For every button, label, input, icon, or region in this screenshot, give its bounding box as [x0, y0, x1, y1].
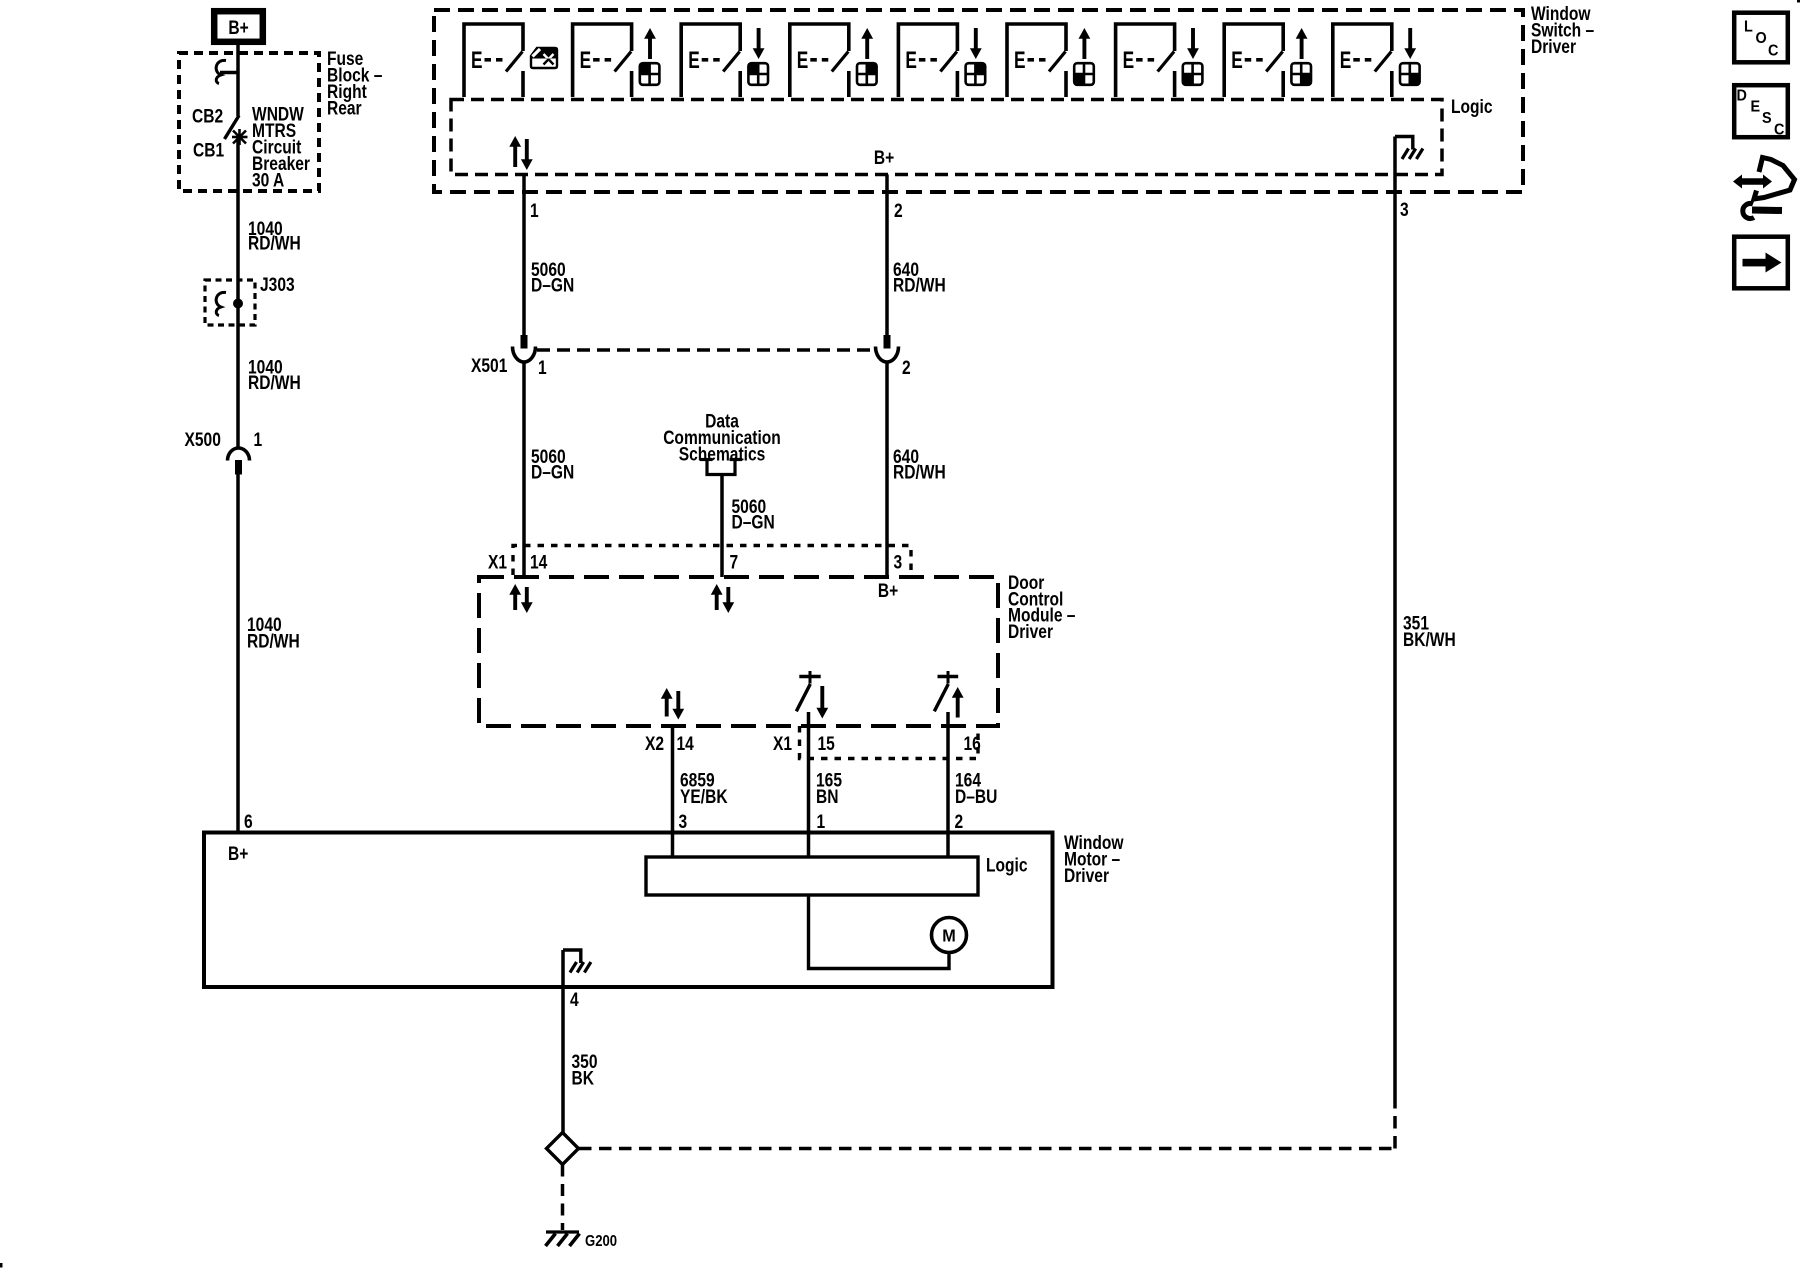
motor pin 2 label [955, 811, 964, 833]
motor logic box [646, 857, 978, 895]
wire 640 RD/WH: switch pin 2 to X501 [885, 175, 889, 336]
window switch - driver label [1531, 3, 1594, 58]
DCM up/down arrows (X2 pin 14) [661, 688, 684, 720]
svg-text:3: 3 [679, 811, 688, 833]
svg-text:2: 2 [894, 200, 903, 222]
fuse block label [327, 48, 383, 119]
svg-text:X2: X2 [645, 733, 664, 755]
DCM output switch (pin 16) with up arrow [934, 671, 963, 718]
motor pin 1 label [817, 811, 826, 833]
dashed wire: splice to G200 [561, 1165, 565, 1231]
door control module label [1008, 572, 1076, 643]
svg-text:E: E [688, 47, 700, 73]
motor pin 4 label [570, 989, 579, 1011]
svg-text:BK/WH: BK/WH [1403, 629, 1456, 651]
circuit breaker CB1 thermal hook [216, 60, 238, 83]
connector X1 label (top) [488, 551, 507, 573]
wire label 1040 RD/WH (middle) [248, 356, 301, 393]
LOC reference box [1734, 13, 1788, 63]
svg-text:15: 15 [818, 733, 836, 755]
svg-text:7: 7 [730, 551, 739, 573]
svg-text:RD/WH: RD/WH [893, 274, 946, 296]
svg-text:B+: B+ [228, 17, 248, 39]
svg-text:D: D [1737, 87, 1747, 105]
svg-text:E: E [1014, 47, 1026, 73]
svg-text:4: 4 [570, 989, 579, 1011]
window switch unit 8 (E--/ switch + BR quad icon) [1224, 24, 1311, 97]
svg-text:30 A: 30 A [252, 169, 285, 191]
svg-text:YE/BK: YE/BK [680, 786, 728, 808]
wire label 1040 RD/WH (upper) [248, 218, 301, 254]
wire 165 BN: DCM pin 15 to motor pin 1 [807, 712, 811, 833]
ground G200 symbol [546, 1232, 580, 1246]
svg-text:1: 1 [254, 429, 263, 451]
pin 2 label (switch) [894, 200, 903, 222]
window switch unit 7 (E--/ switch + BL quad icon) [1116, 24, 1203, 97]
door control module - driver dashed box [479, 577, 998, 726]
DCM up/down arrows (pin 7) [711, 584, 734, 613]
window switch unit 5 (E--/ switch + TR quad icon) [898, 24, 985, 97]
svg-text:L: L [1744, 18, 1753, 36]
svg-text:C: C [1768, 42, 1778, 60]
svg-text:X1: X1 [488, 551, 507, 573]
circuit breaker CB1 contact star [232, 129, 248, 145]
svg-text:Driver: Driver [1531, 36, 1576, 58]
svg-text:Rear: Rear [327, 97, 362, 119]
svg-text:B+: B+ [874, 147, 894, 169]
svg-text:X501: X501 [471, 355, 508, 377]
wire label 640 RD/WH (upper) [893, 259, 946, 296]
label J303 [260, 274, 295, 296]
window switch - driver dashed box [434, 10, 1523, 192]
svg-text:2: 2 [902, 357, 911, 379]
svg-text:G200: G200 [585, 1233, 617, 1250]
ground splice (diamond) [547, 1133, 579, 1165]
connector X500 (dome over blade) [228, 448, 250, 475]
wire label 351 BK/WH [1403, 612, 1456, 650]
svg-text:E: E [905, 47, 917, 73]
connector X1 label (bottom) [773, 733, 792, 755]
svg-text:J303: J303 [260, 274, 295, 296]
X501 terminal 1 (blade into cup) [513, 335, 536, 362]
fuse block - right rear dashed box [179, 53, 319, 191]
wire label 164 D-BU [955, 769, 997, 807]
circuit breaker value label [252, 103, 310, 191]
svg-text:D–GN: D–GN [531, 274, 574, 296]
svg-text:E: E [471, 47, 483, 73]
page corner tick (top right) [1797, 0, 1800, 3]
label CB1 [193, 139, 224, 161]
wire 1040 RD/WH: breaker to J303/X500 [236, 137, 240, 448]
svg-text:D–GN: D–GN [732, 511, 775, 533]
J303 hook symbol [216, 292, 226, 315]
X501 pin 1 label [538, 357, 547, 379]
svg-text:14: 14 [530, 551, 548, 573]
circuit breaker CB1 blade [225, 116, 240, 140]
wire 5060 D-GN: bracket to DCM pin 7 [720, 475, 724, 578]
window switch unit 1 (E--/ switch + window icon) [464, 24, 557, 97]
connector X501 dashed tie line [537, 348, 873, 352]
switch logic label [1451, 96, 1493, 118]
navigation icon (arrows and wrench) [1733, 158, 1795, 219]
svg-text:RD/WH: RD/WH [248, 372, 301, 394]
B+ label inside motor box [228, 843, 248, 865]
wire 5060 D-GN: X501 to DCM pin 14 [522, 362, 526, 577]
wire label 5060 D-GN (upper) [531, 259, 574, 296]
svg-text:Driver: Driver [1064, 865, 1109, 887]
dashed wire 351 BK/WH lower segment [1393, 1096, 1397, 1149]
power feed B+ box [214, 11, 263, 42]
wire label 640 RD/WH (lower) [893, 446, 946, 483]
svg-text:D–GN: D–GN [531, 461, 574, 483]
svg-text:C: C [1774, 121, 1784, 139]
motor M [932, 918, 967, 953]
DESC reference box [1734, 85, 1788, 139]
wire label 1040 RD/WH (lower) [247, 614, 300, 652]
svg-text:CB2: CB2 [192, 105, 223, 127]
wire stub pin 1 to logic [807, 833, 811, 858]
svg-text:BK: BK [572, 1067, 595, 1089]
window motor - driver box [204, 833, 1053, 988]
switch logic dashed box [451, 100, 1442, 175]
svg-text:E: E [1340, 47, 1352, 73]
logic up/down arrows (pin 1) [509, 136, 532, 170]
svg-text:1: 1 [538, 357, 547, 379]
X1 pin 7 label [730, 551, 739, 573]
switch internal ground (pin 3) [1395, 137, 1423, 175]
label CB2 [192, 105, 223, 127]
X2 pin 14 label [677, 733, 695, 755]
in-line connector J303 dashed box [205, 280, 255, 325]
svg-text:E: E [1231, 47, 1243, 73]
connector X500 label [185, 429, 221, 451]
svg-text:M: M [942, 926, 955, 946]
B+ label inside DCM (pin 3) [878, 580, 898, 602]
wire 1040 RD/WH: X500 to window motor pin 6 [236, 474, 240, 833]
svg-text:RD/WH: RD/WH [248, 232, 301, 254]
svg-text:3: 3 [894, 551, 903, 573]
wire: B+ feed to circuit breaker CB1 (fuse block) [236, 45, 240, 116]
svg-text:6: 6 [244, 811, 253, 833]
wire label 350 BK [572, 1051, 598, 1089]
window switch unit 4 (E--/ switch + TR quad icon) [790, 24, 877, 97]
svg-text:BN: BN [816, 786, 838, 808]
wire 164 D-BU: DCM pin 16 to motor pin 2 [946, 712, 950, 833]
X501 pin 2 label [902, 357, 911, 379]
svg-text:2: 2 [955, 811, 964, 833]
svg-text:3: 3 [1400, 199, 1409, 221]
svg-text:Driver: Driver [1008, 620, 1053, 642]
svg-text:S: S [1762, 109, 1772, 127]
svg-text:B+: B+ [878, 580, 898, 602]
svg-text:RD/WH: RD/WH [893, 461, 946, 483]
page corner mark (bottom left) [0, 1263, 3, 1268]
X501 terminal 2 (blade into cup) [876, 335, 899, 362]
label G200 [585, 1233, 617, 1250]
wire 5060 D-GN: switch pin 1 to X501 [522, 175, 526, 336]
svg-text:RD/WH: RD/WH [247, 630, 300, 652]
wire label 5060 D-GN (serial data) [732, 496, 775, 533]
wire stub pin 3 to logic [671, 833, 675, 858]
window switch unit 6 (E--/ switch + BL quad icon) [1007, 24, 1094, 97]
DCM output switch (pin 15) with down arrow [796, 671, 828, 719]
DCM up/down arrows (pin 14) [509, 584, 532, 613]
svg-text:X500: X500 [185, 429, 221, 451]
wire: logic to motor [809, 895, 950, 969]
motor pin 6 label [244, 811, 253, 833]
svg-text:E: E [580, 47, 592, 73]
pin 1 label (switch) [530, 200, 539, 222]
svg-text:E: E [1751, 98, 1761, 116]
window switch unit 9 (E--/ switch + BR quad icon) [1333, 24, 1420, 97]
svg-text:Logic: Logic [1451, 96, 1493, 118]
wire label 165 BN [816, 769, 842, 807]
X1 pin 3 label [894, 551, 903, 573]
window motor - driver label [1064, 832, 1124, 887]
J303 splice dot [233, 299, 243, 309]
svg-text:14: 14 [677, 733, 695, 755]
svg-text:1: 1 [817, 811, 826, 833]
connector X1 (DCM bottom) dashed outline [800, 726, 979, 759]
off-page bracket (data communication) [700, 458, 742, 475]
svg-text:E: E [1123, 47, 1135, 73]
wire 640 RD/WH: X501 to DCM pin 3 [885, 362, 889, 577]
wire 6859 YE/BK: DCM X2-14 to motor pin 3 [671, 726, 675, 833]
window switch unit 3 (E--/ switch + TL quad icon) [681, 24, 768, 97]
motor pin 3 label [679, 811, 688, 833]
svg-text:D–BU: D–BU [955, 786, 997, 808]
motor logic label [986, 854, 1028, 876]
dashed ground bus: splice to right wire [579, 1147, 1395, 1151]
svg-text:E: E [797, 47, 809, 73]
connector X500 pin 1 label [254, 429, 263, 451]
connector X1 (DCM top) dashed outline [513, 546, 911, 576]
svg-text:1: 1 [530, 200, 539, 222]
svg-text:Logic: Logic [986, 854, 1028, 876]
svg-text:16: 16 [964, 733, 982, 755]
svg-text:O: O [1756, 29, 1767, 47]
wire label 5060 D-GN (lower) [531, 446, 574, 483]
wire 351 BK/WH: switch pin 3 down right side [1393, 175, 1397, 1097]
wire stub pin 2 to logic [946, 833, 950, 858]
X1 pin 15 label [818, 733, 836, 755]
wire 350 BK: motor pin 4 to splice [561, 987, 565, 1133]
svg-text:CB1: CB1 [193, 139, 224, 161]
forward arrow box [1734, 237, 1788, 289]
B+ label at switch pin 2 [874, 147, 894, 169]
connector X2 label [645, 733, 664, 755]
pin 3 label (switch) [1400, 199, 1409, 221]
data communication schematics reference label [663, 410, 781, 465]
X1 pin 14 label [530, 551, 548, 573]
wire label 6859 YE/BK [680, 769, 728, 807]
motor internal ground (pin 4) [563, 950, 591, 987]
X1 pin 16 label [964, 733, 982, 755]
svg-text:B+: B+ [228, 843, 248, 865]
window switch unit 2 (E--/ switch + TL quad icon) [573, 24, 660, 97]
connector X501 label [471, 355, 508, 377]
svg-text:Schematics: Schematics [679, 443, 766, 465]
svg-text:X1: X1 [773, 733, 792, 755]
